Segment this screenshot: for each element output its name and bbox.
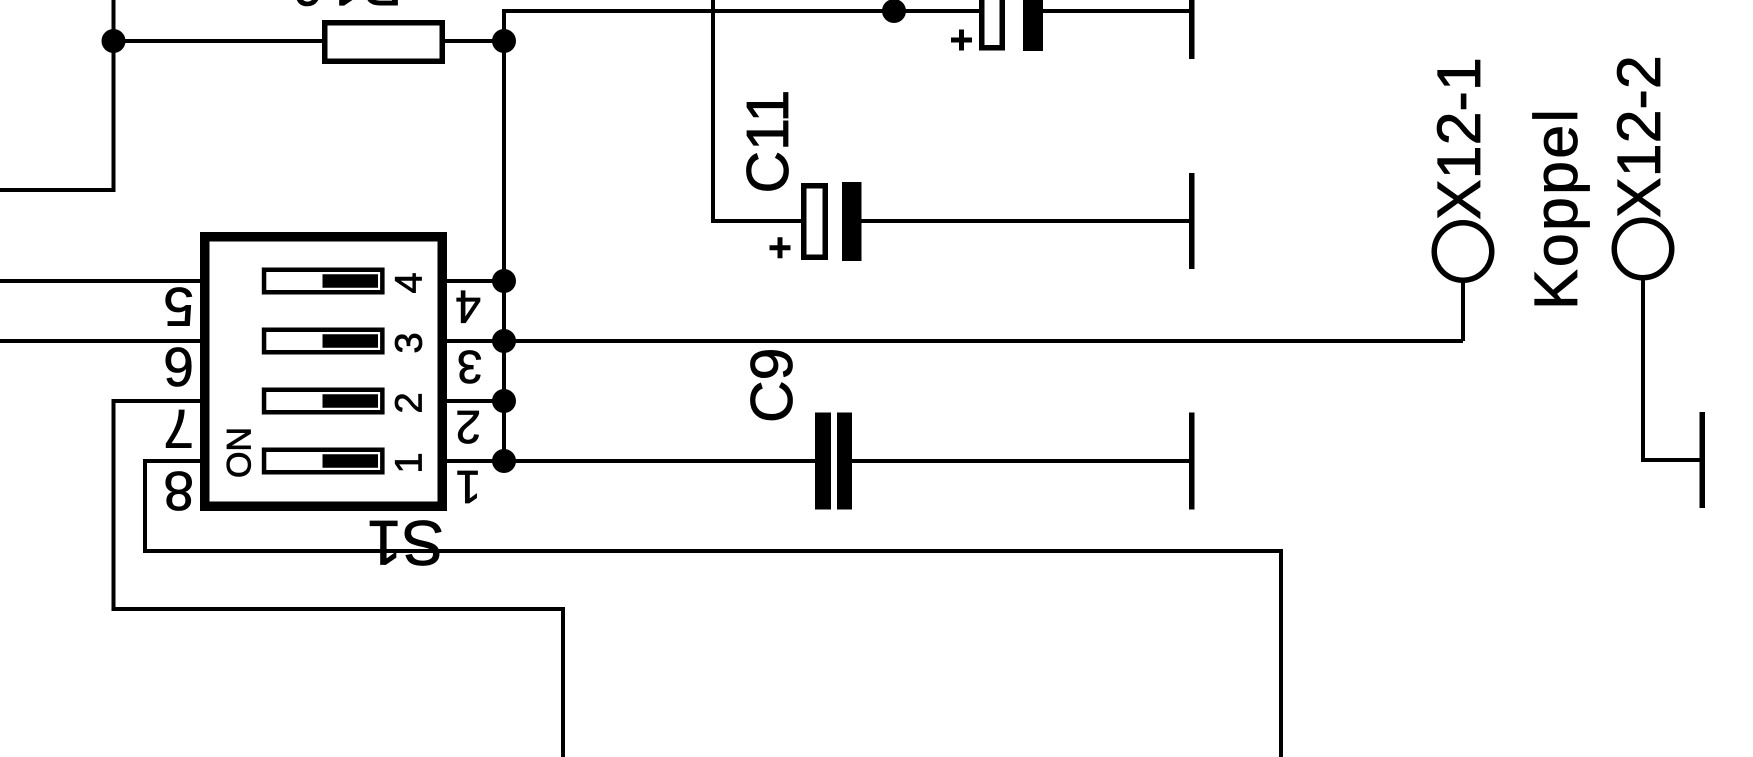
capacitor C11 positive plate [804,186,826,258]
wire: pin 8 bending down and right to bottom edge [145,461,1281,757]
svg-text:X12-1: X12-1 [1425,57,1493,220]
wire: pin 5 [0,279,200,283]
node: junction pin 2 [492,389,516,413]
rail terminal bar at X12-2 [1700,412,1706,508]
switch S1 body [205,237,443,507]
wire: vertical from top edge down and right into C11 [713,0,801,221]
wire: pin 2 to bus [447,399,504,403]
svg-text:Koppel: Koppel [1522,107,1590,310]
svg-text:1: 1 [455,461,481,513]
rail terminal bar lower [1189,413,1195,510]
node: junction left of R16 [102,29,126,53]
svg-text:C11: C11 [735,90,801,194]
wire: C9 to rail terminal [852,459,1189,463]
wire: pin 4 to bus [447,279,504,283]
wire: node up and right to capacitor C10 [504,11,981,41]
wire: row 1 to capacitor C9 [504,459,816,463]
wire: pin 3 to bus [447,339,504,343]
capacitor C10 positive plate (cropped at top) [982,0,1003,48]
connector pin X12-1 [1434,223,1492,341]
switch S1 slider 1 [264,450,382,473]
wire: C11 to rail terminal [862,219,1190,223]
wire: left horizontal into top-left vertical [0,0,114,190]
connector pin X12-2 [1614,220,1700,460]
rail terminal bar middle [1189,173,1195,269]
node: junction pin 4 [492,269,516,293]
node: junction on top wire [882,0,906,23]
capacitor C9 left plate [815,413,831,510]
node: junction right of R16 [492,29,516,53]
label C10 plus sign [951,30,972,51]
node: junction pin 3 [492,329,516,353]
svg-text:1: 1 [389,452,431,473]
svg-text:7: 7 [163,398,194,460]
svg-text:4: 4 [389,272,431,293]
wire: C10 to rail terminal [1043,9,1189,13]
wire: R16 right terminal to node [445,39,504,43]
svg-text:C9: C9 [739,348,805,423]
switch S1 slider 4 [264,270,382,293]
svg-text:4: 4 [455,281,481,333]
svg-text:S1: S1 [367,507,444,577]
wire: pin 6 [0,339,200,343]
capacitor C9 right plate [837,413,852,510]
svg-text:ON: ON [221,427,259,478]
label C11 plus sign [770,237,791,258]
rail terminal bar top (cropped) [1189,0,1195,59]
wire: row 3 to connector X12-1 [504,339,1463,343]
wire: pin 1 to bus [447,459,504,463]
wire: bus vertical right of switch [502,41,506,461]
svg-text:2: 2 [455,401,481,453]
svg-text:X12-2: X12-2 [1605,55,1673,218]
svg-text:R16: R16 [289,0,402,18]
node: junction pin 1 [492,449,516,473]
svg-text:2: 2 [389,392,431,413]
capacitor C10 negative plate (cropped at top) [1023,0,1043,51]
capacitor C11 negative plate [842,182,862,261]
svg-text:8: 8 [163,460,194,522]
wire: junction to R16 left terminal [114,39,323,43]
svg-text:3: 3 [457,341,483,393]
switch S1 slider 3 [264,330,382,353]
svg-text:5: 5 [163,276,194,338]
svg-text:3: 3 [389,332,431,353]
switch S1 slider 2 [264,390,382,413]
svg-text:6: 6 [163,336,194,398]
resistor R16 [325,23,443,62]
wire: pin 7 bending down and right to bottom edge [114,401,564,757]
